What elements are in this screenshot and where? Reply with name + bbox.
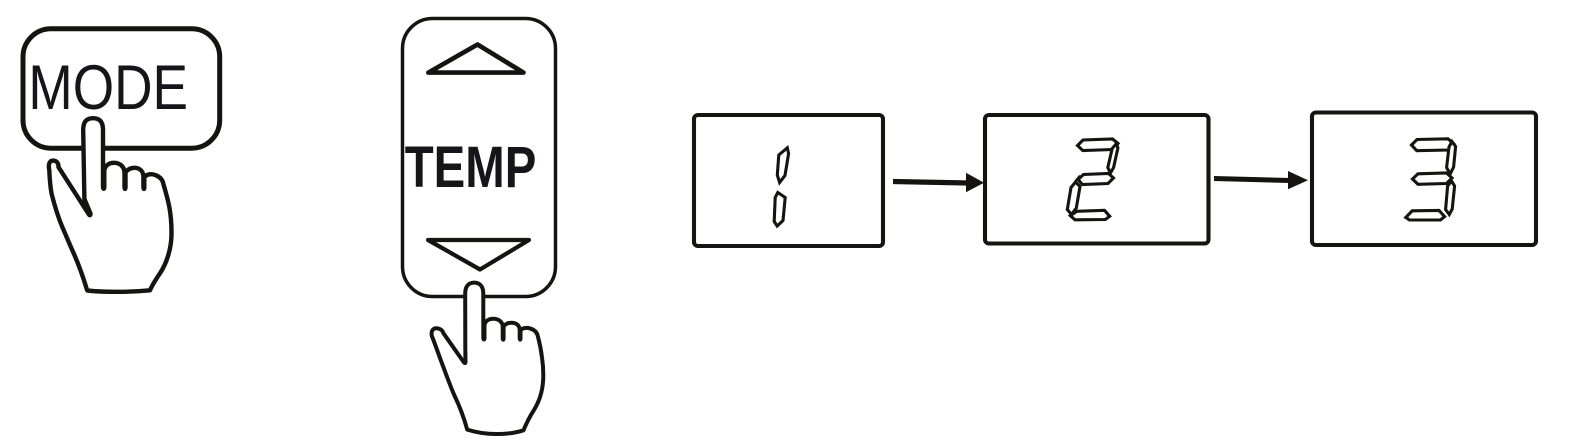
TEMP label	[405, 136, 537, 201]
MODE button	[23, 29, 220, 148]
svg-text:MODE: MODE	[28, 53, 188, 123]
arrow 1	[893, 173, 984, 192]
box 3	[1312, 113, 1536, 246]
TEMP button	[403, 19, 556, 297]
digit 3 (seven segment)	[1406, 139, 1456, 220]
box 2	[985, 115, 1209, 244]
arrow 2	[1214, 171, 1308, 189]
MODE label	[28, 53, 188, 123]
down triangle	[428, 240, 529, 270]
box 1	[694, 115, 883, 246]
svg-text:TEMP: TEMP	[405, 136, 537, 201]
digit 1 (seven segment)	[774, 148, 788, 226]
hand pressing MODE button	[49, 118, 172, 292]
digit 2 (seven segment)	[1067, 139, 1118, 220]
hand pressing TEMP button	[432, 283, 544, 434]
up triangle	[428, 45, 523, 73]
